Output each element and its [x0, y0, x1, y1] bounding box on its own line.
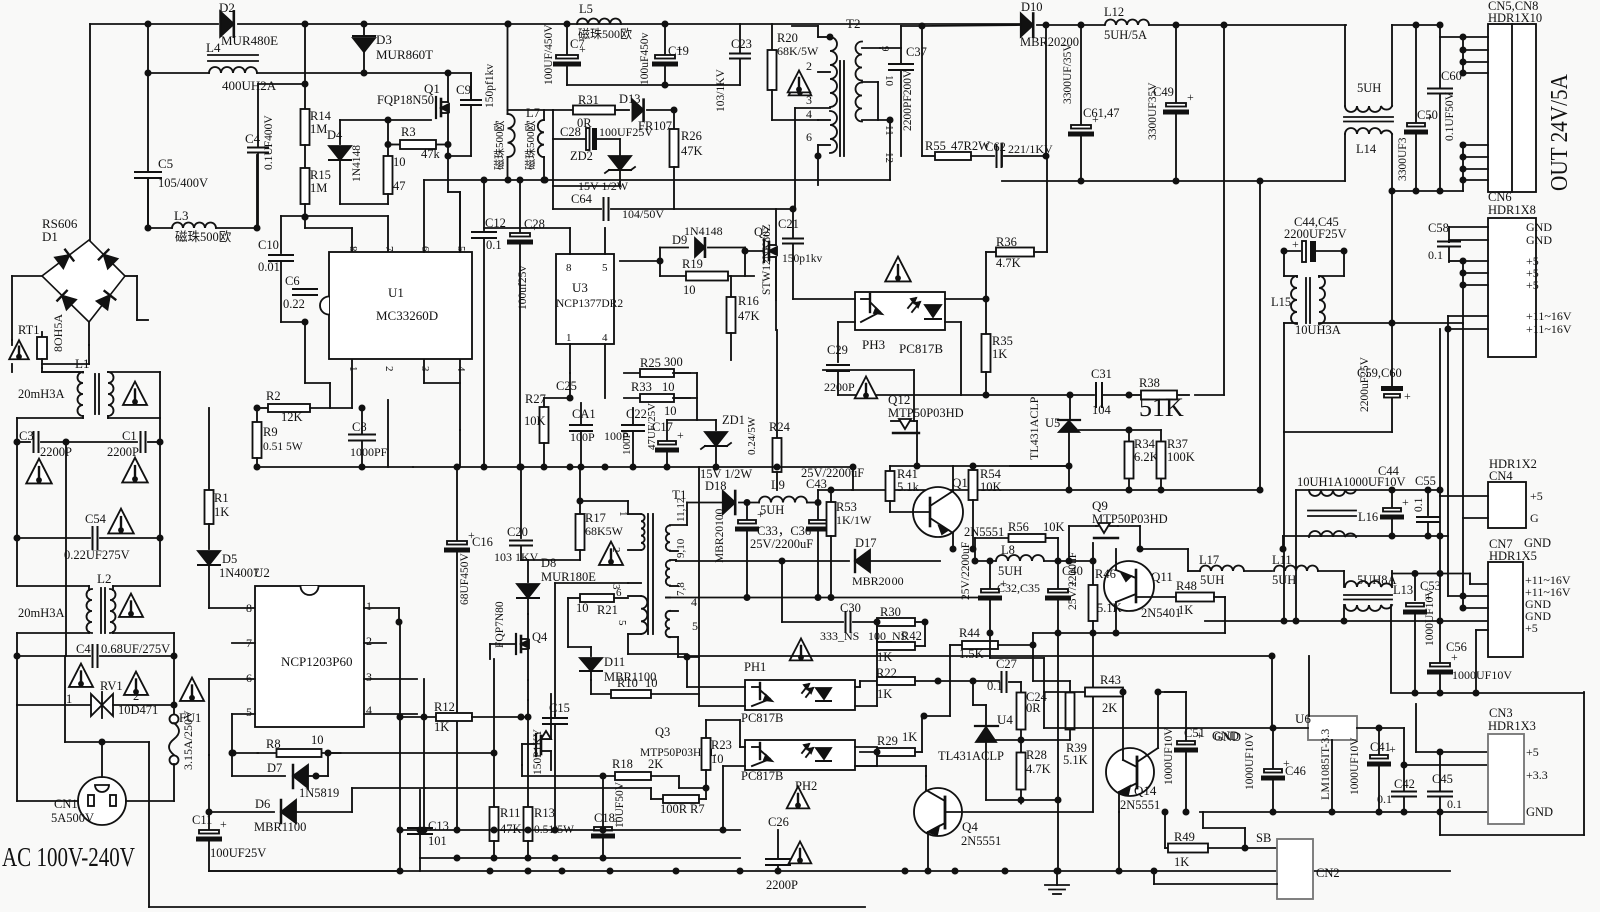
- svg-text:1K: 1K: [877, 687, 892, 701]
- junction: [657, 258, 662, 263]
- wire U1 pin5 up: [459, 192, 461, 252]
- junction: [1460, 593, 1465, 598]
- svg-text:100uF450v: 100uF450v: [639, 32, 651, 85]
- svg-text:10UF50V: 10UF50V: [614, 781, 626, 828]
- svg-text:8OH5A: 8OH5A: [51, 314, 65, 352]
- junction: [1066, 558, 1071, 563]
- capacitor C13: [419, 790, 421, 826]
- svg-text:L14: L14: [1356, 142, 1377, 156]
- svg-text:10: 10: [662, 380, 675, 394]
- svg-text:ZD2: ZD2: [570, 149, 593, 163]
- svg-text:0.24/5W: 0.24/5W: [746, 416, 758, 455]
- wire R19 node left: [620, 260, 660, 262]
- svg-text:333_NS: 333_NS: [820, 629, 859, 643]
- wire U1 pins to bus: [387, 400, 389, 467]
- inductor L17: [1140, 548, 1188, 550]
- wire CN6 stubs: [1449, 226, 1488, 228]
- wire R15 to U1 pin8: [304, 204, 306, 228]
- svg-text:CN1: CN1: [54, 797, 78, 811]
- wire U3 pin5 up: [604, 228, 606, 254]
- transistor Q11 2N5401: [1104, 561, 1154, 611]
- svg-text:C5: C5: [158, 156, 173, 171]
- wire module bottom y742: [65, 741, 149, 743]
- svg-text:5A500V: 5A500V: [51, 811, 94, 825]
- wire D6 row to R7: [425, 787, 651, 789]
- svg-text:5.1k: 5.1k: [897, 480, 920, 494]
- resistor R55: [921, 26, 923, 156]
- regulator U6 LM1085IT-3.3: [1308, 716, 1357, 740]
- transistor Q3 MTP50P03HDL: [535, 734, 537, 756]
- svg-text:L3: L3: [174, 208, 188, 223]
- svg-text:5.1K: 5.1K: [1063, 753, 1088, 767]
- junction: [1389, 320, 1394, 325]
- junction: [361, 21, 366, 26]
- svg-text:RT1: RT1: [18, 323, 39, 337]
- junction: [1173, 178, 1178, 183]
- wire C40 ground drop: [1057, 633, 1059, 871]
- svg-text:+5: +5: [1526, 745, 1539, 759]
- capacitor C28b: [519, 180, 521, 232]
- svg-text:L9: L9: [771, 478, 785, 492]
- junction: [517, 464, 522, 469]
- wire R8 right: [328, 752, 494, 754]
- junction: [417, 827, 422, 832]
- capacitor C11: [208, 755, 210, 830]
- wire L6 L7 top row: [508, 109, 554, 111]
- junction: [1055, 558, 1060, 563]
- junction: [487, 868, 492, 873]
- junction: [1183, 809, 1188, 814]
- svg-text:+: +: [1196, 728, 1203, 742]
- svg-text:GND: GND: [1526, 805, 1553, 819]
- resistor R12: [400, 716, 436, 718]
- svg-text:CN4: CN4: [1489, 469, 1513, 483]
- inductor L7 vertical: [543, 110, 545, 120]
- wire PH3 right top: [945, 298, 986, 300]
- wire bridge left to RT1: [12, 275, 42, 277]
- svg-text:1: 1: [566, 332, 572, 344]
- junction: [1257, 487, 1262, 492]
- junction: [1151, 868, 1156, 873]
- svg-text:R1: R1: [214, 491, 229, 505]
- wire AC rect + to D2: [90, 23, 218, 25]
- inductor L3: [147, 178, 149, 228]
- junction: [541, 177, 546, 182]
- svg-text:5UH/5A: 5UH/5A: [1104, 28, 1147, 42]
- svg-text:C12: C12: [485, 216, 506, 230]
- svg-text:5: 5: [455, 246, 467, 252]
- opto PH1 PC817B: [745, 680, 855, 710]
- junction: [1055, 797, 1060, 802]
- svg-text:47K: 47K: [681, 144, 703, 158]
- svg-text:104: 104: [1092, 403, 1112, 417]
- junction: [559, 868, 564, 873]
- svg-text:C8: C8: [352, 420, 367, 434]
- resistor R46: [1092, 561, 1094, 585]
- svg-text:FQP7N80: FQP7N80: [494, 601, 506, 648]
- junction: [1437, 533, 1442, 538]
- svg-text:L7: L7: [526, 106, 540, 120]
- resistor R39: [1069, 730, 1071, 740]
- wire plug right to fuse: [126, 800, 174, 802]
- junction: [1126, 392, 1131, 397]
- wire PH3 right bottom: [945, 321, 961, 323]
- junction: [1437, 571, 1442, 576]
- wire CN4 stubs: [1440, 495, 1488, 497]
- svg-text:R48: R48: [1176, 579, 1197, 593]
- svg-text:12: 12: [883, 152, 895, 163]
- wire bottom rail y181: [1002, 180, 1345, 182]
- wire x699 vertical: [698, 467, 700, 657]
- svg-text:C31: C31: [1091, 367, 1112, 381]
- wire D7 to R8 node: [316, 775, 328, 777]
- svg-text:D17: D17: [855, 536, 877, 550]
- svg-text:1N5819: 1N5819: [299, 786, 339, 800]
- junction: [491, 750, 496, 755]
- junction: [1054, 868, 1059, 873]
- wire bus down x853: [852, 467, 854, 490]
- svg-text:C16: C16: [472, 535, 493, 549]
- junction: [1113, 630, 1118, 635]
- svg-text:MUR860T: MUR860T: [376, 47, 433, 62]
- svg-text:C7: C7: [570, 37, 585, 51]
- junction: [1221, 22, 1226, 27]
- wire bus y812: [1200, 811, 1488, 813]
- svg-text:0R: 0R: [1026, 701, 1041, 715]
- svg-text:OUT 24V/5A: OUT 24V/5A: [1547, 73, 1573, 191]
- wire L2 bottoms: [17, 632, 89, 634]
- svg-text:+5: +5: [1525, 621, 1538, 635]
- svg-text:R41: R41: [897, 467, 918, 481]
- svg-text:R36: R36: [996, 235, 1017, 249]
- junction: [254, 225, 259, 230]
- capacitor C5: [147, 73, 149, 172]
- svg-text:6.2K: 6.2K: [1134, 450, 1159, 464]
- warning triangle RV1 right: [124, 672, 148, 695]
- wire D10 node down: [1045, 25, 1047, 156]
- junction: [229, 750, 234, 755]
- svg-text:10: 10: [311, 733, 324, 747]
- capacitor C26: [777, 830, 779, 858]
- svg-text:NCP1377DR2: NCP1377DR2: [556, 298, 623, 310]
- shunt ref U4 TL431ACLP: [985, 705, 987, 725]
- warning triangle C26: [789, 842, 812, 864]
- junction: [1460, 282, 1465, 287]
- svg-text:68K5W: 68K5W: [585, 524, 624, 538]
- svg-text:1000UF10V: 1000UF10V: [1452, 668, 1512, 682]
- capacitor C43: [817, 490, 819, 503]
- junction: [1158, 487, 1163, 492]
- resistor R33: [624, 397, 640, 399]
- svg-text:磁珠500欧: 磁珠500欧: [578, 26, 632, 41]
- svg-text:0.68UF/275V: 0.68UF/275V: [101, 642, 170, 656]
- junction: [1280, 546, 1285, 551]
- svg-text:R17: R17: [585, 511, 606, 525]
- capacitor C25: [569, 373, 571, 398]
- junction: [779, 558, 784, 563]
- T1 lower primary: [641, 596, 647, 634]
- svg-text:6: 6: [419, 246, 431, 252]
- wire CN7 stubs: [1448, 595, 1463, 597]
- wire plus11 vertical: [1447, 329, 1449, 536]
- junction: [1293, 618, 1298, 623]
- wire PH1 left pins: [686, 657, 688, 687]
- resistor R24: [776, 330, 778, 437]
- wire to R8: [232, 752, 258, 754]
- varistor RV1: [17, 704, 91, 706]
- junction: [171, 653, 176, 658]
- svg-text:PC817B: PC817B: [741, 769, 783, 783]
- wire R49 right SB: [1208, 847, 1277, 849]
- wire PH2 right pins: [855, 746, 877, 748]
- junction: [815, 500, 820, 505]
- svg-text:1K: 1K: [992, 347, 1007, 361]
- junction: [1126, 427, 1131, 432]
- wire rail y621: [1205, 620, 1488, 622]
- wire to C9: [448, 73, 471, 99]
- junction: [145, 70, 150, 75]
- svg-text:C44: C44: [1378, 464, 1400, 478]
- wire x305 chain down to R2 row: [304, 322, 306, 383]
- wire D4 gate row: [340, 119, 431, 121]
- capacitor C54: [17, 537, 90, 539]
- junction: [1270, 725, 1275, 730]
- svg-text:U3: U3: [572, 280, 588, 295]
- inductor L4: [208, 54, 258, 56]
- capacitor C49: [1175, 25, 1177, 102]
- warning triangle C3: [26, 459, 52, 484]
- wire D13 node to Q2 drain: [674, 208, 793, 210]
- capacitor C58: [1438, 241, 1460, 243]
- svg-text:0.01: 0.01: [258, 260, 280, 274]
- connector CN5 CN8 HDR1X10: [1488, 24, 1536, 192]
- junction: [1137, 546, 1142, 551]
- resistor R21: [568, 597, 580, 599]
- junction: [1412, 571, 1417, 576]
- wire Q11 top: [1115, 549, 1117, 562]
- wire rail y633: [1033, 632, 1225, 634]
- capacitor C20: [520, 467, 522, 538]
- svg-text:R11: R11: [500, 806, 520, 820]
- svg-text:C46: C46: [1285, 764, 1306, 778]
- junction: [703, 785, 708, 790]
- svg-text:51K: 51K: [1139, 393, 1184, 422]
- svg-text:PH3: PH3: [862, 337, 885, 352]
- wire plug top: [101, 742, 103, 777]
- svg-text:+: +: [1451, 650, 1458, 664]
- T1 secondary 11 12: [666, 525, 670, 550]
- wire U3 pin1 down: [569, 344, 571, 373]
- wire +3.3 to CN3: [1404, 764, 1488, 766]
- junction: [925, 868, 930, 873]
- svg-text:1K: 1K: [434, 720, 449, 734]
- svg-text:L13: L13: [1393, 583, 1413, 597]
- svg-text:MTP50P03HD: MTP50P03HD: [888, 406, 964, 420]
- svg-text:GND: GND: [1526, 233, 1552, 247]
- svg-text:C61,47: C61,47: [1083, 106, 1119, 120]
- junction: [1460, 142, 1465, 147]
- svg-text:25V/2200uF: 25V/2200uF: [960, 542, 972, 600]
- inductor L5: [577, 19, 621, 25]
- junction: [505, 21, 510, 26]
- svg-text:R29: R29: [877, 734, 898, 748]
- svg-text:R23: R23: [711, 738, 732, 752]
- junction: [1090, 558, 1095, 563]
- resistor R3: [390, 144, 400, 146]
- svg-text:R44: R44: [959, 626, 981, 640]
- svg-text:R27: R27: [525, 392, 546, 406]
- inductor L12: [1105, 20, 1149, 26]
- diode D2: [220, 11, 234, 36]
- svg-text:C27: C27: [996, 657, 1017, 671]
- svg-text:10K: 10K: [1043, 520, 1065, 534]
- junction: [1030, 642, 1035, 647]
- svg-text:C25: C25: [556, 379, 577, 393]
- resistor R13: [527, 717, 529, 808]
- svg-text:D1: D1: [42, 229, 58, 244]
- svg-text:4: 4: [806, 107, 812, 121]
- junction: [1078, 22, 1083, 27]
- junction: [1413, 22, 1418, 27]
- junction: [1116, 868, 1121, 873]
- junction: [518, 714, 523, 719]
- wire Q14 emitter ground: [1118, 812, 1120, 871]
- svg-text:C41: C41: [1370, 740, 1391, 754]
- junction: [445, 153, 450, 158]
- svg-text:CN2: CN2: [1316, 866, 1340, 880]
- svg-text:R53: R53: [836, 500, 857, 514]
- wire bus y871: [209, 870, 1450, 872]
- transistor Q2 STW12NK80Z: [763, 240, 765, 262]
- svg-text:104/50V: 104/50V: [622, 207, 664, 221]
- wire Q4 source down: [527, 680, 529, 700]
- wire rail y597: [666, 597, 990, 599]
- wire Q4 gate row: [490, 643, 516, 645]
- svg-text:C21: C21: [778, 217, 799, 231]
- junction: [1437, 618, 1442, 623]
- svg-text:U2: U2: [254, 565, 270, 580]
- svg-text:1K: 1K: [1178, 603, 1193, 617]
- svg-text:C29: C29: [827, 343, 848, 357]
- resistor R53: [830, 490, 832, 502]
- wire x148 down to L4: [147, 24, 149, 73]
- svg-text:4: 4: [602, 332, 608, 344]
- wire U2 pin4 right: [364, 713, 417, 715]
- wire top HV bus: [305, 23, 1021, 25]
- svg-text:7,8: 7,8: [675, 582, 687, 596]
- svg-text:5.1K: 5.1K: [1097, 601, 1122, 615]
- resistor R35: [985, 299, 987, 334]
- inductor L6 vertical: [507, 24, 509, 114]
- svg-text:150pf1kv: 150pf1kv: [484, 64, 496, 108]
- junction: [983, 296, 988, 301]
- resistor R22: [860, 680, 877, 682]
- svg-text:0.1: 0.1: [1413, 497, 1425, 512]
- capacitor C45b: [1439, 752, 1441, 790]
- junction: [1425, 487, 1430, 492]
- junction: [850, 464, 855, 469]
- resistor R27: [543, 398, 545, 407]
- svg-text:100P: 100P: [570, 430, 595, 444]
- resistor R17: [579, 467, 581, 514]
- svg-text:HDR1X10: HDR1X10: [1488, 11, 1542, 25]
- svg-text:C4: C4: [76, 642, 91, 656]
- junction: [361, 70, 366, 75]
- svg-text:1000UF10V: 1000UF10V: [1349, 737, 1361, 795]
- capacitor C19: [664, 24, 666, 54]
- svg-text:L17: L17: [1199, 553, 1219, 567]
- junction: [1018, 737, 1023, 742]
- junction: [1162, 809, 1167, 814]
- wire node x553: [552, 110, 554, 139]
- resistor R49: [1164, 812, 1166, 848]
- inductor L13 5UH8A: [1343, 571, 1345, 587]
- diode D3: [363, 24, 365, 36]
- svg-text:1000UF10V: 1000UF10V: [1244, 732, 1256, 790]
- junction: [1257, 178, 1262, 183]
- wire U2 pin3 right: [364, 678, 417, 680]
- svg-text:2: 2: [383, 366, 395, 372]
- svg-text:R26: R26: [681, 129, 702, 143]
- junction: [1067, 392, 1072, 397]
- junction: [1341, 248, 1346, 253]
- junction: [99, 739, 104, 744]
- wire bus y467: [413, 466, 853, 468]
- svg-text:100R: 100R: [660, 802, 688, 816]
- capacitor C4: [248, 147, 268, 149]
- svg-text:R42: R42: [901, 629, 922, 643]
- junction: [1437, 22, 1442, 27]
- junction: [1425, 533, 1430, 538]
- junction: [491, 827, 496, 832]
- connector CN2: [1277, 839, 1313, 899]
- svg-text:101: 101: [428, 834, 447, 848]
- junction: [1078, 178, 1083, 183]
- junction: [720, 827, 725, 832]
- svg-text:+: +: [1187, 90, 1194, 104]
- junction: [827, 34, 832, 39]
- junction: [1281, 618, 1286, 623]
- svg-text:2N5551: 2N5551: [964, 525, 1004, 539]
- wire Q3 gate: [522, 743, 536, 745]
- capacitor C10: [280, 216, 282, 253]
- junction: [14, 439, 19, 444]
- svg-text:1: 1: [617, 511, 629, 517]
- svg-text:10: 10: [711, 752, 724, 766]
- svg-text:MBR20100: MBR20100: [714, 508, 726, 563]
- diode D4: [339, 120, 341, 144]
- svg-text:MBR20 00: MBR20 00: [852, 574, 904, 588]
- capacitor C17: [666, 420, 668, 440]
- wire Q12 down: [916, 433, 918, 466]
- svg-text:HDR1X5: HDR1X5: [1489, 549, 1537, 563]
- svg-text:R18: R18: [612, 757, 633, 771]
- junction: [171, 702, 176, 707]
- svg-text:PC817B: PC817B: [741, 711, 783, 725]
- junction: [1412, 690, 1417, 695]
- svg-text:R21: R21: [597, 603, 618, 617]
- resistor R48: [1138, 596, 1176, 598]
- resistor R41: [889, 466, 891, 470]
- svg-text:C32,C35: C32,C35: [997, 581, 1040, 595]
- capacitor C22: [622, 424, 644, 426]
- svg-text:1M: 1M: [310, 181, 327, 195]
- inductor L11: [1274, 566, 1318, 572]
- svg-text:U4: U4: [997, 712, 1013, 727]
- svg-text:C23: C23: [731, 37, 752, 51]
- junction: [970, 678, 975, 683]
- wire PH1 right pins: [855, 686, 860, 688]
